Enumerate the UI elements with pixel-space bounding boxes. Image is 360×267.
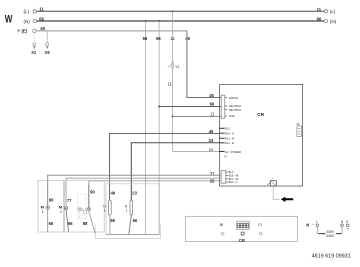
svg-text:11: 11 — [209, 147, 214, 152]
svg-text:N: N — [306, 222, 309, 227]
svg-text:45: 45 — [209, 93, 214, 98]
terminal (L) left — [24, 9, 37, 14]
svg-text:Y1: Y1 — [175, 65, 180, 69]
svg-text:AC : POWER: AC : POWER — [225, 150, 241, 154]
motor M1 — [41, 198, 55, 232]
svg-text:1: 1 — [42, 210, 44, 214]
svg-text:66: 66 — [39, 16, 44, 21]
pin POWER — [219, 150, 241, 159]
heater H1 — [103, 190, 116, 234]
node junction 11 to line — [172, 116, 174, 118]
svg-text:: LINE: : LINE — [228, 114, 235, 118]
svg-text:66: 66 — [133, 218, 138, 223]
wire 90 bundle — [89, 181, 221, 208]
svg-text:66: 66 — [49, 221, 54, 226]
svg-text:(E): (E) — [22, 29, 28, 34]
svg-text:86: 86 — [49, 198, 54, 203]
terminal (N) left — [24, 19, 37, 24]
svg-text:88: 88 — [83, 221, 88, 226]
svg-text:N: N — [225, 155, 227, 159]
node on N bus x=145.7 — [145, 20, 147, 22]
svg-text:23: 23 — [132, 190, 137, 195]
lamp L1 — [83, 185, 96, 234]
svg-text:~: ~ — [312, 222, 315, 227]
terminal (N) right — [317, 17, 337, 24]
motor M2 — [59, 198, 73, 232]
buzzer B1 on bottom edge — [267, 177, 276, 186]
svg-text:RL2: RL2 — [225, 127, 230, 131]
svg-text:Cl: Cl — [258, 223, 262, 227]
svg-text:45: 45 — [40, 26, 45, 31]
enclosure box M1 — [38, 180, 64, 232]
svg-text:BLD - V: BLD - V — [229, 181, 238, 184]
svg-text:11: 11 — [317, 7, 322, 12]
pin RL4 — [219, 132, 234, 136]
svg-text:L: L — [316, 220, 318, 224]
svg-text:1: 1 — [126, 208, 128, 212]
svg-text:11: 11 — [168, 82, 173, 87]
wire 86 bundle — [48, 175, 221, 206]
svg-text:W: W — [5, 14, 13, 26]
wire E bus — [36, 30, 187, 32]
thermal cutout Y1 — [168, 62, 180, 70]
enclosure box M2 lamps — [65, 180, 105, 232]
svg-text:2: 2 — [60, 210, 62, 214]
svg-text:(L): (L) — [24, 9, 30, 14]
terminal (E) left — [17, 29, 36, 34]
mains legend N — [306, 220, 344, 238]
display 8888 — [236, 221, 249, 229]
lamp box dashed — [78, 194, 87, 218]
wire feeder 66 left — [145, 21, 147, 234]
svg-text:66: 66 — [210, 102, 215, 107]
wire feeder 11 — [172, 11, 174, 151]
svg-text:X1: X1 — [31, 50, 37, 55]
svg-text:66: 66 — [156, 36, 161, 41]
svg-text:: NEUTRAL: : NEUTRAL — [228, 104, 242, 108]
svg-text:(N): (N) — [24, 19, 31, 24]
wire N bus — [37, 20, 325, 22]
svg-text:66: 66 — [68, 221, 73, 226]
connector BL block — [221, 170, 239, 184]
svg-text:1: 1 — [86, 211, 88, 215]
svg-text:Bf: Bf — [220, 223, 223, 227]
svg-text:CR: CR — [239, 238, 245, 243]
earth connector X1 — [31, 33, 37, 56]
heater R1 — [125, 190, 138, 234]
wire 11 to POWER — [173, 151, 220, 153]
svg-text:4619 619 09931: 4619 619 09931 — [312, 253, 351, 259]
terminal (L) right — [317, 7, 336, 14]
wire 11 to LINE pin — [173, 116, 222, 118]
knob CR — [239, 232, 245, 243]
control panel box — [185, 216, 297, 241]
svg-text:77: 77 — [67, 198, 72, 203]
button Cl — [258, 223, 262, 235]
pin RL2 — [219, 127, 230, 131]
svg-text:66: 66 — [110, 218, 115, 223]
pin RL3 — [219, 137, 234, 141]
svg-text:X9: X9 — [45, 50, 51, 55]
earth terminal E — [346, 220, 349, 230]
svg-text:23: 23 — [209, 138, 214, 143]
wire from buzzer down — [273, 186, 280, 199]
svg-text:RL3 - R: RL3 - R — [225, 137, 234, 141]
wire 45 drop — [187, 31, 221, 98]
svg-text:CR: CR — [257, 112, 264, 118]
enclosure outer box — [95, 225, 160, 239]
button Bf — [220, 223, 224, 235]
svg-text:45: 45 — [185, 36, 190, 41]
svg-text:M: M — [59, 204, 62, 209]
control board CR box — [219, 84, 302, 186]
svg-text:240V: 240V — [326, 234, 335, 238]
svg-text:49: 49 — [209, 129, 214, 134]
node junction 66 to neutral — [158, 106, 160, 108]
node on L bus x=172.6 — [172, 10, 174, 12]
wire 66 to NEUTRAL pin — [159, 106, 221, 108]
connector mains block — [221, 95, 242, 118]
wire L bus — [37, 10, 325, 12]
node on N bus x=159 — [158, 20, 160, 22]
wire 23 — [131, 143, 219, 201]
wire feeder 66 right — [158, 21, 160, 234]
svg-text:N: N — [341, 220, 344, 224]
svg-text:90: 90 — [90, 189, 95, 194]
svg-text:66: 66 — [317, 17, 322, 22]
svg-text:(L): (L) — [330, 9, 336, 14]
arrow pointer — [281, 197, 293, 202]
svg-text:11: 11 — [170, 36, 175, 41]
svg-text:*: * — [272, 177, 274, 181]
svg-text:49: 49 — [111, 190, 116, 195]
svg-text:RL1 - E: RL1 - E — [225, 141, 234, 145]
svg-text:: NEUTRAL: : NEUTRAL — [228, 108, 242, 112]
wire 49 — [110, 133, 220, 200]
svg-text:66: 66 — [143, 36, 148, 41]
svg-text:1: 1 — [104, 208, 106, 212]
wire 77 bundle — [66, 178, 221, 206]
svg-text:M: M — [41, 204, 44, 209]
earth connector X9 — [45, 31, 51, 55]
fuse F6 on right edge — [297, 122, 302, 136]
svg-text:E: E — [346, 220, 348, 224]
enclosure box heaters — [106, 184, 159, 235]
pin RL1 — [219, 141, 234, 145]
svg-text:11: 11 — [210, 112, 215, 117]
svg-text:RL4 - H: RL4 - H — [225, 132, 234, 136]
svg-text:: EARTH: : EARTH — [228, 96, 238, 100]
svg-text:(N): (N) — [330, 19, 337, 24]
lamp L2 — [78, 207, 85, 218]
svg-text:11: 11 — [39, 7, 44, 12]
